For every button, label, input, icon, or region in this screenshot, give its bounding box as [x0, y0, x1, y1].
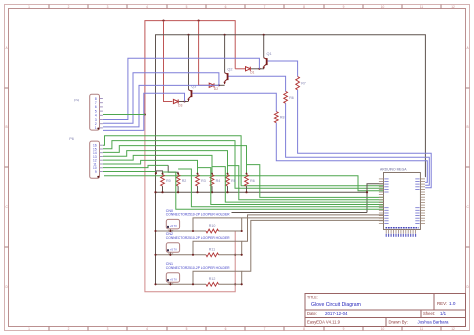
svg-text:R10: R10 [209, 224, 216, 228]
svg-text:12: 12 [451, 327, 455, 331]
svg-text:3: 3 [107, 327, 109, 331]
svg-text:D1: D1 [250, 71, 254, 75]
svg-text:R6: R6 [289, 96, 294, 100]
wire CN2 bypass loop [193, 241, 242, 255]
connector P4 [74, 94, 103, 130]
svg-text:Date:: Date: [307, 311, 317, 316]
wire VCC drop to D3 [164, 21, 173, 102]
resistor R3 [196, 175, 206, 187]
svg-text:CONNECTOR2510-2P LOOPER HOLDER: CONNECTOR2510-2P LOOPER HOLDER [166, 236, 230, 240]
wire GND top rail [156, 35, 426, 284]
wire CN1 to Arduino (gray) [242, 220, 384, 271]
node CN1 pin junction [169, 283, 171, 285]
svg-text:12: 12 [451, 5, 455, 9]
resistor R6 [284, 91, 294, 103]
svg-text:7: 7 [264, 327, 266, 331]
node resistor bottom junction x212 [211, 191, 213, 193]
wire D3 to Q3 emitter node [179, 101, 189, 103]
svg-text:B: B [467, 125, 469, 129]
ARDUINO MEGA bottom label bands [386, 227, 419, 229]
svg-text:R2: R2 [182, 179, 187, 183]
node CN1 loop junctions [192, 283, 194, 285]
wire R1 top hook (dark) [168, 165, 178, 174]
node Q1 emitter junction [258, 68, 260, 70]
svg-text:2017-12-04: 2017-12-04 [325, 311, 348, 316]
node GND-Q1 junction [263, 34, 265, 36]
ARDUINO MEGA left pins [379, 179, 384, 224]
node resistor bottom junction x227 [226, 191, 228, 193]
ARDUINO MEGA bottom pins [386, 230, 415, 234]
wire GND drop to Q1 collector [263, 35, 265, 58]
wire R8 to Arduino right (blue) [276, 123, 427, 183]
node pink-CN2 junction [234, 254, 236, 256]
wire P6 pin16 to Arduino (green) [103, 136, 384, 186]
wire R3 node to Arduino (green) [198, 168, 384, 205]
wire R7 to Arduino right (blue) [298, 90, 432, 188]
svg-text:+5 7V: +5 7V [170, 248, 177, 252]
wire P6 pin14 to R5 top (green) [103, 146, 247, 175]
svg-text:D3: D3 [178, 103, 182, 107]
wire CN1 bypass loop [193, 271, 242, 284]
svg-text:8: 8 [303, 5, 305, 9]
node GND riser junction [366, 191, 368, 193]
node CN2 pin junction [169, 254, 171, 256]
wire P4 pin3 to Q1 emitter (blue) [103, 58, 259, 119]
svg-text:1: 1 [28, 5, 30, 9]
wire Q1 base to R7 (blue) [268, 61, 298, 77]
wire D2 to Q2 emitter node [215, 84, 225, 86]
node resistor bottom junction x178 [177, 191, 179, 193]
svg-text:10: 10 [381, 5, 385, 9]
diode D3 [173, 99, 178, 103]
wire P6 pin13 to R4 top (green) [103, 151, 228, 175]
svg-text:6: 6 [225, 5, 227, 9]
svg-text:9: 9 [95, 170, 97, 174]
svg-text:R5: R5 [231, 179, 236, 183]
svg-text:R6: R6 [250, 179, 255, 183]
svg-text:R12: R12 [209, 277, 216, 281]
op-amp U1 ARDUINO MEGA body [380, 168, 420, 230]
svg-text:4: 4 [146, 5, 148, 9]
wire CN1 row (gray) [156, 283, 207, 285]
svg-text:7: 7 [264, 5, 266, 9]
svg-text:Drawn By:: Drawn By: [389, 320, 408, 325]
diode D1 [246, 67, 251, 71]
node GND rail left junction [154, 191, 156, 193]
resistor R0 [161, 175, 171, 187]
wire R6b node to Arduino (green) [247, 165, 384, 198]
svg-text:9: 9 [343, 5, 345, 9]
svg-text:CONNECTOR2510-2P LOOPER HOLDER: CONNECTOR2510-2P LOOPER HOLDER [166, 266, 230, 270]
wire GND drop to Q2 collector [224, 35, 226, 73]
wire CN0 bypass loop [193, 218, 242, 231]
node VCC-R1 junction [162, 20, 164, 22]
svg-text:Glove Circuit Diagram: Glove Circuit Diagram [311, 302, 361, 308]
svg-text:1.0: 1.0 [449, 301, 456, 306]
resistor R5 [226, 175, 236, 187]
wire P6 pin15 to Arduino (green) [103, 141, 384, 189]
node CN0 left junction [154, 230, 156, 232]
connector CN2 [166, 232, 230, 256]
node CN2 loop junctions [192, 254, 194, 256]
connector P6 [69, 137, 103, 179]
wire resistor bottom leads [163, 186, 247, 192]
wire GND riser to Arduino (dark) [367, 184, 384, 213]
resistor R6 [245, 175, 255, 187]
svg-text:5: 5 [186, 5, 188, 9]
svg-text:EasyEDA V4.11.9: EasyEDA V4.11.9 [307, 320, 341, 325]
wire VCC drop to D2 [199, 21, 209, 86]
svg-text:Sheet:: Sheet: [423, 311, 435, 316]
svg-text:8: 8 [303, 327, 305, 331]
transistor Q2 [223, 68, 232, 85]
node Q3 emitter junction [183, 100, 185, 102]
title block frame [305, 294, 466, 327]
svg-text:R11: R11 [209, 248, 215, 252]
svg-text:R4: R4 [216, 179, 221, 183]
wire P6 pin12 to R3 top (green) [103, 155, 212, 174]
resistor R7 [296, 77, 306, 90]
wire D1 to Q1 emitter node [251, 68, 264, 70]
node CN1 left junction [154, 283, 156, 285]
svg-text:R7: R7 [301, 82, 306, 86]
wire CN0 row (gray) [156, 230, 207, 232]
svg-text:P6: P6 [69, 137, 74, 141]
svg-text:11: 11 [420, 327, 424, 331]
transistor Q1 [263, 52, 272, 69]
connector CN0 [166, 209, 230, 233]
resistor R10 [206, 224, 219, 233]
svg-text:2: 2 [68, 327, 70, 331]
wire GND branch lower (dark) [232, 212, 368, 214]
svg-text:Q1: Q1 [267, 52, 272, 56]
ARDUINO MEGA right pins [420, 179, 425, 224]
node R0 green junction [155, 172, 157, 174]
svg-text:1: 1 [28, 327, 30, 331]
wire Q2 base to R6 (blue) [229, 76, 286, 91]
node CN0 loop junctions [192, 230, 194, 232]
wire CN0 to Arduino (gray) [242, 217, 384, 219]
svg-text:R0: R0 [166, 179, 171, 183]
svg-text:Q2: Q2 [227, 68, 232, 72]
resistor R4 [210, 175, 220, 187]
connector CN1 [166, 262, 230, 286]
svg-text:3: 3 [107, 5, 109, 9]
wire R2 node to Arduino (green) [178, 169, 383, 207]
wire VCC drop to D1 stub [235, 68, 245, 70]
svg-text:CONNECTOR2510-2P LOOPER HOLDER: CONNECTOR2510-2P LOOPER HOLDER [166, 213, 230, 217]
svg-text:9: 9 [343, 327, 345, 331]
node GND-Q2 junction [224, 34, 226, 36]
svg-text:REV:: REV: [437, 301, 447, 306]
node resistor bottom junction x246 [245, 191, 247, 193]
svg-text:Joshua Barbara: Joshua Barbara [418, 320, 450, 325]
resistor R2 [176, 175, 186, 187]
svg-text:D2: D2 [214, 87, 218, 91]
svg-text:B: B [6, 125, 8, 129]
wire P4 pin5 green to VCC vertical [103, 114, 145, 116]
wire R0 node to Arduino (green) [163, 172, 384, 209]
node CN2 left junction [154, 254, 156, 256]
node P4 green junction [144, 113, 146, 115]
wire P4 pin1 to Q3 emitter (blue) [103, 93, 185, 130]
svg-text:+5 7V: +5 7V [170, 224, 177, 228]
wire R0 top hook [156, 171, 162, 175]
svg-text:5: 5 [186, 327, 188, 331]
svg-text:2: 2 [68, 5, 70, 9]
wire R6 to Arduino right (blue) [286, 103, 430, 185]
svg-text:+5 7V: +5 7V [170, 277, 177, 281]
svg-text:10: 10 [381, 327, 385, 331]
svg-text:4: 4 [146, 327, 148, 331]
svg-text:1: 1 [95, 126, 97, 130]
node GND-Q3 junction [187, 34, 189, 36]
node CN0 pin junction [169, 230, 171, 232]
node Q2 emitter junction [218, 84, 220, 86]
svg-text:1/1: 1/1 [440, 311, 447, 316]
wire P4 pin2 to Q2 emitter (blue) [103, 73, 219, 123]
diode D2 [209, 83, 214, 87]
title block values [311, 301, 456, 325]
svg-text:R8: R8 [280, 116, 285, 120]
wire P4 pin1b to Q2 node (blue) [103, 85, 219, 127]
wire P6 pin9 to R0 node (green) [103, 171, 156, 173]
node pink-CN1 junction [234, 283, 236, 285]
svg-text:6: 6 [225, 327, 227, 331]
wire Q3 base to R8 (blue) [192, 93, 276, 111]
title block text labels [307, 296, 447, 325]
wire VCC long vertical and bottom return [145, 115, 235, 292]
wire P6 bottom to Arduino (green) [104, 176, 384, 191]
resistor R11 [206, 248, 219, 257]
node resistor bottom junction x197 [196, 191, 198, 193]
svg-text:R3: R3 [201, 179, 206, 183]
wire VCC top rail [145, 21, 235, 115]
svg-text:TITLE:: TITLE: [307, 296, 318, 300]
wire resistor bottom rail (dark) [156, 191, 368, 193]
node resistor bottom junction x162 [161, 191, 163, 193]
resistor R12 [206, 277, 219, 286]
wire R5 node to Arduino (green) [228, 166, 384, 200]
wire R4 node to Arduino (green) [212, 167, 384, 203]
svg-text:ARDUINO MEGA: ARDUINO MEGA [380, 168, 407, 172]
svg-text:P4: P4 [74, 98, 79, 102]
wire CN2 row (gray) [156, 254, 207, 256]
wire P6 pin10 to R1 top (green) [103, 165, 168, 167]
svg-text:11: 11 [420, 5, 424, 9]
resistor R8 [274, 112, 284, 123]
node VCC-R2 junction [198, 20, 200, 22]
wire CN2 to Arduino (gray) [242, 215, 384, 241]
wire P6 pin11 to R2 top (green) [103, 160, 198, 174]
wire GND drop to Q3 collector [188, 35, 190, 90]
transistor Q3 [187, 85, 196, 102]
